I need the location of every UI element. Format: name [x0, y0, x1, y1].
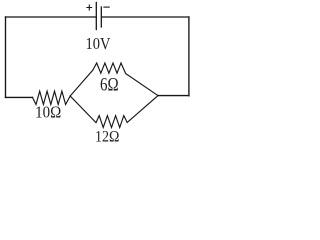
svg-text:10V: 10V: [86, 35, 111, 53]
svg-text:10Ω: 10Ω: [35, 104, 61, 122]
svg-text:12Ω: 12Ω: [95, 129, 119, 146]
svg-text:6Ω: 6Ω: [100, 74, 119, 95]
